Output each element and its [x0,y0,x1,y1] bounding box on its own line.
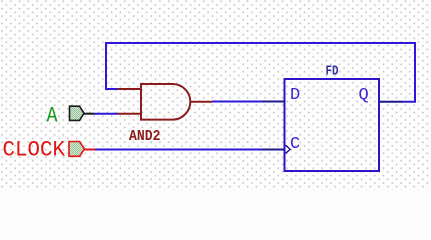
wire: CLOCK port stub (red segment) [84,149,95,151]
and-gate AND2 [118,84,213,120]
wire: A net (blue segment) [94,113,118,115]
and-gate AND2 body [141,84,190,120]
svg-text:FD: FD [326,64,339,80]
port symbol CLOCK (input terminal) [69,142,85,157]
and-gate input stub lower [118,113,142,115]
pin stub C (navy) [262,149,285,151]
svg-text:Q: Q [359,86,369,105]
and-gate input stub upper [118,88,142,90]
svg-text:AND2: AND2 [129,129,161,145]
flip-flop FD body [285,79,380,171]
svg-text:C: C [290,135,300,154]
background dotted grid [0,0,431,190]
clock edge triangle on C pin [286,145,291,153]
wire: feedback net from Q (blue) [106,43,415,102]
svg-text:A: A [47,102,58,128]
wire: A port stub (black segment) [84,113,95,115]
wire: CLOCK net (blue segment) [95,149,262,151]
svg-text:CLOCK: CLOCK [3,138,66,163]
svg-text:D: D [290,86,300,105]
port symbol A (input terminal) [70,106,85,120]
wire: net from AND2 output to D (blue segment) [212,101,262,103]
and-gate output stub [191,101,213,103]
pin stub D (navy) [262,101,285,103]
pin stub Q (navy) [379,101,403,103]
